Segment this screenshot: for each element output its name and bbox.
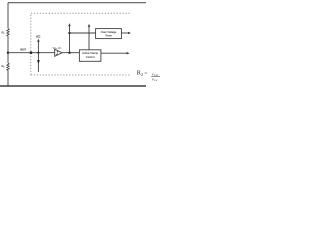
svg-text:VIT+, VIT-: VIT+, VIT- bbox=[53, 47, 62, 50]
wire bottom ground rail bbox=[0, 85, 146, 87]
svg-text:VEXT: VEXT bbox=[20, 47, 27, 51]
svg-text:VCC: VCC bbox=[36, 37, 41, 39]
wire left divider rail bbox=[7, 3, 9, 86]
svg-text:R2 =: R2 = bbox=[137, 70, 148, 77]
wire comparator output bbox=[62, 52, 79, 54]
wire VCC branch up bbox=[37, 41, 39, 52]
label formula R2 equation bbox=[137, 70, 160, 82]
wire clamp output bbox=[101, 52, 127, 54]
block Over Voltage Timer bbox=[96, 29, 122, 39]
wire top supply rail bbox=[8, 2, 146, 4]
arrow A up bbox=[68, 23, 71, 26]
junction timer branch bbox=[68, 32, 70, 34]
wire current sink branch down bbox=[37, 53, 39, 72]
wire to over voltage timer bbox=[70, 32, 96, 34]
arrow to VCC bbox=[37, 39, 40, 42]
wire arrow A stem bbox=[69, 25, 71, 33]
op-amp U1 comparator with hysteresis bbox=[55, 49, 62, 56]
pin VEXT boundary square bbox=[30, 52, 32, 54]
arrow B up bbox=[88, 24, 91, 27]
block Active Clamp Control bbox=[79, 50, 101, 62]
resistor R1 bbox=[7, 29, 9, 36]
arrow clamp output bbox=[127, 52, 130, 55]
arrow current sink down bbox=[37, 60, 40, 63]
junction VCC branch bbox=[37, 52, 39, 54]
svg-text:Timer: Timer bbox=[105, 34, 112, 38]
wire timer output bbox=[121, 32, 128, 34]
arrow timer output bbox=[128, 32, 131, 35]
IC boundary dashed box bbox=[31, 13, 130, 75]
junction comparator output bbox=[68, 52, 70, 54]
svg-text:Active Clamp: Active Clamp bbox=[82, 51, 98, 55]
junction divider tap bbox=[7, 52, 9, 54]
wire arrow B stem crossing bbox=[88, 26, 90, 50]
wire VEXT node bbox=[8, 52, 55, 54]
resistor R2 bbox=[7, 63, 9, 70]
svg-text:Over Voltage: Over Voltage bbox=[101, 30, 117, 34]
svg-text:Control: Control bbox=[86, 55, 95, 59]
wire branch up to timer bbox=[69, 33, 71, 53]
